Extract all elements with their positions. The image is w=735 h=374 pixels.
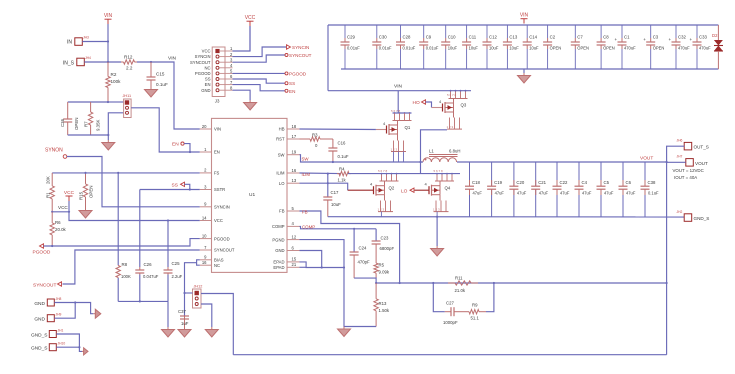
capacitor C36 OPEN [67, 102, 69, 119]
U1 pin 6 GND [287, 250, 300, 252]
svg-text:HB: HB [279, 127, 285, 132]
wire COMP pin4 [300, 226, 377, 228]
U1 pin 9 BIAS [200, 259, 212, 261]
svg-text:SYNCOUT: SYNCOUT [214, 248, 235, 253]
wire FB pin5 [300, 211, 400, 283]
U1 pin 18 HB [287, 128, 300, 130]
svg-text:1 2 3: 1 2 3 [378, 208, 385, 212]
capacitor C30 0.01uF [376, 25, 378, 38]
svg-text:OPEN: OPEN [603, 46, 615, 51]
U1 pin 1 EN [200, 151, 212, 153]
sideways ground for JH1/JH10 [82, 350, 84, 352]
svg-text:5 6 7 8: 5 6 7 8 [434, 169, 444, 173]
svg-text:0.01uF: 0.01uF [403, 46, 416, 51]
wire VIN rail to FET drains [328, 90, 471, 92]
net label SYNCOUT with arrow [58, 282, 62, 286]
resistor R9 51.1 [462, 311, 469, 313]
svg-text:R12: R12 [124, 55, 133, 60]
U1 pin 4 COMP [287, 225, 300, 227]
svg-text:1uF: 1uF [181, 321, 189, 326]
svg-text:C37: C37 [178, 309, 186, 314]
resistor R11 21.0k in FB line [448, 282, 455, 284]
wire J3 pin2 to SYNCIN label [233, 47, 287, 57]
wire PGND pin12 [300, 240, 377, 327]
capacitor C28 0.01uF [400, 25, 402, 38]
wire comp network bottom [354, 278, 376, 283]
capacitor C4 47uF [578, 162, 580, 186]
svg-text:2.2uF: 2.2uF [172, 274, 183, 279]
U1 pin 17 RST [287, 138, 300, 140]
capacitor C9 0.01uF [423, 25, 425, 38]
svg-text:PGOOD: PGOOD [214, 236, 230, 241]
wire SSTR pin3 to C26 [140, 189, 200, 191]
capacitor C32 470uF [675, 25, 677, 38]
svg-text:VCC: VCC [214, 218, 223, 223]
svg-text:10uF: 10uF [489, 46, 499, 51]
svg-text:EN: EN [205, 82, 211, 87]
wire HO to Q3 gate [426, 102, 432, 108]
U1 pin 12 PGND [287, 239, 300, 241]
svg-text:C20: C20 [516, 180, 524, 185]
svg-text:VCC: VCC [245, 15, 256, 21]
capacitor C2 OPEN [547, 25, 549, 38]
transistor Q1 (high-side NFET) [300, 128, 376, 131]
svg-text:NC: NC [214, 263, 220, 268]
svg-text:16: 16 [202, 260, 207, 265]
svg-text:470uF: 470uF [678, 46, 690, 51]
svg-text:C33: C33 [699, 35, 707, 40]
transistor Q4 (low-side NFET) [436, 174, 438, 181]
svg-text:VCC: VCC [202, 49, 211, 54]
svg-text:C19: C19 [494, 180, 502, 185]
svg-text:C1: C1 [624, 35, 630, 40]
svg-text:ILIM: ILIM [276, 171, 285, 176]
wire OUT_S to VOUT node [667, 146, 685, 355]
inductor L1 6.8uH [429, 154, 458, 156]
svg-text:IOUT = 40A: IOUT = 40A [674, 175, 697, 180]
svg-text:0.1uF: 0.1uF [338, 154, 349, 159]
wire SYNON to SYNCIN pin [67, 157, 200, 207]
capacitor C27 1000pF [445, 311, 451, 313]
svg-text:C2: C2 [550, 35, 556, 40]
capacitor C33 470uF [696, 25, 698, 38]
svg-text:JH10: JH10 [58, 342, 66, 346]
svg-text:Q1: Q1 [405, 125, 411, 130]
svg-text:R3: R3 [312, 133, 318, 138]
wire J3 pin6 to SS label [233, 79, 286, 83]
svg-text:C22: C22 [560, 180, 568, 185]
resistor R15 OPEN [85, 173, 87, 184]
svg-text:C38: C38 [648, 180, 656, 185]
svg-text:R9: R9 [472, 303, 478, 308]
svg-text:C7: C7 [577, 35, 583, 40]
wire JH12 right to bottom rail [201, 294, 233, 355]
net label PGOOD (J3) [285, 72, 288, 75]
svg-text:GND: GND [34, 317, 45, 323]
svg-text:14: 14 [202, 215, 207, 220]
svg-text:SYNCOUT: SYNCOUT [289, 53, 312, 58]
U1 pin 16 NC [200, 264, 212, 266]
wire J3 pin1 to VCC [233, 26, 251, 51]
svg-text:470pF: 470pF [358, 260, 371, 265]
wire Q1 drain bar [393, 112, 412, 114]
svg-text:10uF: 10uF [448, 46, 458, 51]
wire R2 bottom to JH11 pin1 rail [108, 101, 124, 103]
capacitor C5 47uF [600, 162, 602, 186]
svg-text:C24: C24 [359, 246, 367, 251]
svg-text:SYNCOUT: SYNCOUT [190, 60, 211, 65]
svg-text:JH6: JH6 [677, 139, 683, 143]
capacitor C16 0.1uF bootstrap [324, 138, 333, 140]
svg-text:BIAS: BIAS [214, 258, 224, 263]
svg-text:JH11: JH11 [123, 94, 132, 98]
svg-text:51.1: 51.1 [471, 316, 480, 321]
capacitor C21 47uF [535, 162, 537, 186]
svg-text:2.2: 2.2 [126, 66, 133, 71]
wire IN to VIN node [82, 41, 108, 43]
svg-text:SW: SW [302, 157, 310, 162]
svg-text:5 6 7 8: 5 6 7 8 [447, 93, 457, 97]
capacitor C29 0.01uF [344, 25, 346, 38]
capacitor C11 10uF [466, 25, 468, 38]
U1 pin 9 SYNCIN [200, 206, 212, 208]
svg-text:VIN: VIN [520, 13, 529, 19]
svg-text:JH2: JH2 [677, 210, 683, 214]
U1 pin 19 SW [287, 154, 300, 156]
svg-text:Q3: Q3 [461, 103, 467, 108]
svg-text:OPEN: OPEN [653, 46, 665, 51]
connector J3 8-pin header [212, 47, 225, 97]
svg-text:R2: R2 [111, 72, 117, 77]
svg-text:SS: SS [289, 81, 295, 86]
svg-text:C4: C4 [582, 180, 588, 185]
wire J3 pin7 to EN label [233, 85, 286, 91]
svg-text:JH1: JH1 [58, 329, 64, 333]
capacitor C37 1uF [184, 315, 186, 317]
capacitor C25 2.2uF on VCC [167, 219, 169, 221]
ground below C25 rail [167, 327, 169, 330]
wire bottom rail C36-R7-gnd [68, 134, 109, 136]
svg-text:SYNCIN: SYNCIN [292, 45, 309, 50]
svg-text:0.01uF: 0.01uF [347, 46, 360, 51]
svg-text:LO: LO [401, 189, 408, 195]
svg-text:C5: C5 [604, 180, 610, 185]
svg-text:JH4: JH4 [85, 56, 91, 60]
svg-text:0.01uF: 0.01uF [426, 46, 439, 51]
svg-text:R11: R11 [455, 276, 463, 281]
transistor Q3 (high-side NFET) [450, 91, 452, 99]
wire FB line [376, 282, 666, 284]
svg-text:VIN: VIN [168, 56, 177, 62]
svg-text:20K: 20K [46, 176, 51, 184]
capacitor C1 470uF [621, 25, 623, 38]
wire LO to Q4 gate [415, 189, 430, 191]
capacitor C12 10uF [486, 25, 488, 38]
svg-text:15: 15 [292, 257, 297, 262]
U1 pin 10 PGOOD [200, 238, 212, 240]
svg-text:ILIM: ILIM [302, 172, 311, 177]
svg-text:12: 12 [292, 234, 297, 239]
resistor R12 2.2 [121, 61, 124, 63]
svg-text:OPEN: OPEN [89, 186, 94, 198]
svg-text:COMP: COMP [302, 225, 315, 230]
capacitor C10 10uF [445, 25, 447, 38]
svg-text:GND: GND [275, 248, 284, 253]
Q3 source comb [449, 118, 451, 130]
svg-text:JH12: JH12 [194, 285, 203, 289]
svg-text:OPEN: OPEN [550, 46, 562, 51]
svg-text:GND_S: GND_S [31, 346, 48, 352]
wire J3 pin5 to PGOOD label [233, 72, 286, 74]
svg-text:OPEN: OPEN [74, 118, 79, 130]
svg-text:C30: C30 [379, 35, 387, 40]
svg-text:JH9: JH9 [56, 313, 62, 317]
svg-text:EPAD: EPAD [273, 265, 284, 270]
input cap bank top rail VIN [328, 24, 718, 26]
svg-text:VOUT: VOUT [695, 161, 708, 166]
svg-text:VIN: VIN [394, 84, 403, 90]
svg-text:0.01uF: 0.01uF [379, 46, 392, 51]
U1 pin 15 EPAD [287, 261, 300, 263]
svg-text:C26: C26 [144, 262, 153, 267]
svg-text:C32: C32 [678, 35, 686, 40]
svg-text:+: + [615, 37, 618, 42]
svg-text:C29: C29 [347, 35, 355, 40]
svg-text:10: 10 [202, 233, 207, 238]
svg-text:47uF: 47uF [626, 191, 636, 196]
svg-text:C16: C16 [338, 141, 346, 146]
wire JH11 pin2 to EN pin of U1 [131, 108, 200, 152]
svg-text:OPEN: OPEN [577, 46, 589, 51]
svg-text:VOUT: VOUT [640, 156, 653, 162]
svg-text:5 6 7 8: 5 6 7 8 [378, 169, 388, 173]
wire bank to VIN rail of FETs [327, 25, 329, 91]
svg-text:R6: R6 [55, 220, 61, 225]
capacitor C7 OPEN [574, 25, 576, 38]
svg-text:+: + [669, 37, 672, 42]
wire FS rail [52, 172, 200, 174]
svg-text:OUT_S: OUT_S [694, 145, 709, 150]
svg-text:1 2 3: 1 2 3 [433, 208, 440, 212]
svg-text:47uF: 47uF [560, 191, 570, 196]
svg-text:FB: FB [302, 209, 308, 214]
resistor R1 20K [51, 173, 53, 186]
svg-text:C28: C28 [403, 35, 411, 40]
svg-text:VIN: VIN [104, 13, 113, 19]
svg-text:1 2 3: 1 2 3 [447, 125, 454, 129]
wire J3 pin8 to ground [233, 90, 251, 100]
svg-text:100k: 100k [111, 79, 122, 84]
svg-text:IN: IN [67, 40, 72, 46]
op-amp/controller U1 box [212, 118, 288, 272]
svg-text:FS: FS [214, 171, 220, 176]
svg-text:U1: U1 [249, 192, 255, 198]
svg-text:EN: EN [214, 150, 220, 155]
svg-text:C15: C15 [156, 72, 165, 77]
svg-text:47uF: 47uF [517, 191, 527, 196]
ground below Q4 [436, 246, 438, 249]
svg-text:GND_S: GND_S [694, 216, 710, 221]
capacitor C24 470pF [353, 228, 355, 230]
svg-text:HO: HO [413, 100, 420, 106]
svg-text:GND_S: GND_S [31, 333, 48, 339]
capacitor C15 0.1uF [150, 62, 152, 77]
svg-text:C18: C18 [472, 180, 480, 185]
svg-text:1000pF: 1000pF [443, 320, 458, 325]
svg-text:470uF: 470uF [699, 46, 711, 51]
svg-text:47uF: 47uF [604, 191, 614, 196]
svg-text:0.1uF: 0.1uF [648, 191, 659, 196]
svg-text:PGOOD: PGOOD [289, 71, 307, 76]
Q1 source comb to SW rail [393, 141, 395, 152]
svg-text:C27: C27 [446, 301, 454, 306]
net label SS (J3) [285, 82, 288, 85]
wire IN_S to R12 [84, 61, 121, 63]
wire gnd rail under R8/C26/C25 [118, 300, 168, 302]
resistor R6 20.0k PGOOD pullup [51, 212, 53, 223]
svg-text:VCC: VCC [58, 205, 68, 210]
svg-text:C25: C25 [172, 261, 181, 266]
svg-text:16: 16 [292, 168, 297, 173]
svg-text:C11: C11 [469, 35, 477, 40]
U1 pin 7 SYNCOUT [200, 249, 212, 251]
svg-text:R4: R4 [339, 167, 345, 172]
net label PGOOD with arrow [40, 244, 44, 248]
svg-text:VIN: VIN [214, 127, 221, 132]
capacitor C26 0.047uF on SSTR [139, 190, 141, 268]
svg-text:47uF: 47uF [539, 191, 549, 196]
svg-text:470uF: 470uF [624, 46, 636, 51]
wire PGOOD line to pin10 [44, 239, 200, 246]
svg-text:Q4: Q4 [445, 186, 451, 191]
svg-text:19: 19 [292, 150, 297, 155]
svg-text:10uF: 10uF [509, 46, 519, 51]
capacitor C18 47uF [469, 162, 471, 186]
svg-text:IN_S: IN_S [63, 61, 75, 67]
capacitor C20 47uF [513, 162, 515, 186]
wire Q4 ground drop [436, 217, 438, 246]
svg-text:R8: R8 [122, 262, 128, 267]
svg-text:21: 21 [292, 262, 297, 267]
svg-text:21.0k: 21.0k [455, 288, 466, 293]
svg-text:L1: L1 [429, 149, 434, 154]
svg-text:100K: 100K [121, 274, 131, 279]
ground at PGND [343, 327, 345, 330]
svg-text:SYNCIN: SYNCIN [195, 54, 211, 59]
svg-text:R5: R5 [379, 263, 385, 268]
resistor R13 1.50k FB to gnd [375, 283, 377, 299]
wire ILIM to low FET drains [348, 173, 460, 175]
wire C27/R9 parallel branch [433, 283, 445, 312]
capacitor C22 47uF [556, 162, 558, 186]
ground below C37 [184, 327, 186, 330]
capacitor C17 10uF [327, 173, 329, 175]
wire JH11 pin3 to ground [108, 113, 123, 140]
capacitor C14 10uF [526, 25, 528, 38]
svg-text:10uF: 10uF [469, 46, 479, 51]
svg-text:SS: SS [205, 77, 211, 82]
svg-text:+: + [643, 37, 646, 42]
wire rail to C36/R7 [68, 101, 108, 103]
capacitor C38 0.1uF [644, 162, 646, 186]
svg-text:C13: C13 [509, 35, 517, 40]
svg-text:6800pF: 6800pF [380, 246, 395, 251]
svg-text:SW: SW [278, 152, 285, 157]
svg-text:47uF: 47uF [582, 191, 592, 196]
svg-text:C6: C6 [626, 180, 632, 185]
resistor R5 9.09k [375, 258, 377, 263]
svg-text:0.047uF: 0.047uF [143, 274, 159, 279]
svg-text:EN: EN [172, 142, 179, 148]
svg-text:C21: C21 [538, 180, 546, 185]
svg-text:20.0k: 20.0k [55, 227, 67, 232]
U1 pin 16 ILIM [287, 172, 300, 174]
connector JH11 (3-pin header) [124, 99, 132, 118]
U1 pin 2 FS [200, 172, 212, 174]
svg-text:18: 18 [292, 124, 297, 129]
svg-text:JH7: JH7 [677, 155, 683, 159]
net label SYNCIN [287, 45, 291, 49]
ground for JH12 pin3 [211, 327, 213, 330]
svg-text:GND: GND [201, 88, 210, 93]
output gnd rail [328, 216, 685, 218]
capacitor C19 47uF [491, 162, 493, 186]
U1 pin 14 VCC [200, 220, 212, 222]
resistor R8 100K on FS [117, 172, 119, 174]
wire R12 to C15 and VIN corner [137, 62, 200, 129]
svg-text:R7: R7 [84, 121, 89, 127]
wire JH8/JH9 to ground [54, 303, 93, 314]
svg-text:COMP: COMP [272, 224, 285, 229]
bottom sense rail [233, 354, 666, 356]
connector JH12 (3-pin header) [193, 289, 202, 308]
wire R1 bottom / VCC to pin14 VCC [52, 212, 200, 221]
svg-text:SYNON: SYNON [45, 148, 63, 154]
wire VIN vertical to R2 [107, 24, 109, 62]
svg-text:9.35K: 9.35K [96, 119, 101, 131]
ground below C36/R7 rail [107, 140, 109, 143]
svg-text:+: + [690, 37, 693, 42]
svg-text:NC: NC [204, 65, 210, 70]
svg-text:1.50k: 1.50k [379, 308, 390, 313]
svg-text:SYNCIN: SYNCIN [214, 205, 230, 210]
wire BIAS/NC tie to JH12 and C37 [197, 260, 200, 265]
svg-text:13: 13 [292, 178, 297, 183]
svg-text:VOUT = 12VDC: VOUT = 12VDC [673, 168, 704, 173]
svg-text:C8: C8 [603, 35, 609, 40]
svg-text:VCC: VCC [64, 190, 75, 196]
capacitor C13 10uF [506, 25, 508, 38]
svg-text:J3: J3 [215, 99, 220, 104]
transistor Q2 (low-side NFET) [381, 174, 383, 181]
wire Q3 source to SW node [421, 130, 448, 174]
svg-text:PGOOD: PGOOD [33, 250, 51, 256]
capacitor C3 OPEN [650, 25, 652, 38]
wire J3 pin3 to SYNCOUT label [233, 55, 286, 62]
svg-text:Q2: Q2 [389, 186, 395, 191]
U1 pin 13 LO [287, 182, 300, 184]
wire SYNCOUT pin7 to label [63, 250, 200, 284]
svg-text:JH8: JH8 [56, 297, 62, 301]
resistor R3 0 on HB [300, 138, 306, 140]
svg-text:C23: C23 [381, 236, 389, 241]
capacitor C23 6800pF [375, 229, 377, 241]
svg-text:C10: C10 [448, 35, 456, 40]
U1 pin 20 VIN [200, 128, 212, 130]
svg-text:PGND: PGND [272, 237, 284, 242]
wire ILIM with R4 1.1k [300, 172, 341, 175]
svg-text:17: 17 [292, 134, 297, 139]
